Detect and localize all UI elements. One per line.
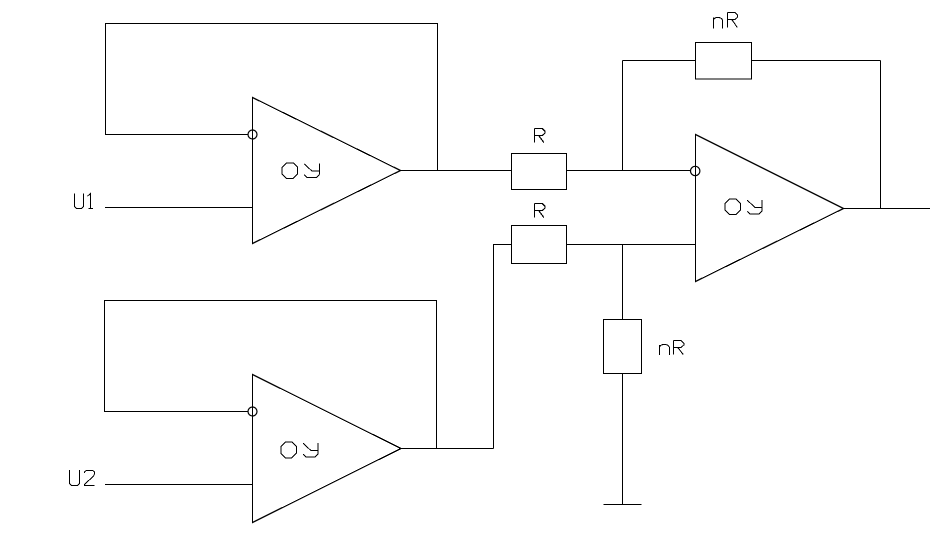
resistor R lower body bbox=[512, 226, 567, 264]
op-amp U1 triangle bbox=[253, 98, 401, 244]
resistor R upper body bbox=[512, 154, 567, 190]
op-amp U1 inverting input circle bbox=[248, 130, 257, 139]
wire: nR feedback down to op-amp U3 output bbox=[880, 61, 882, 209]
wire: feedback tap vertical (junction to nR) bbox=[622, 61, 624, 171]
op-amp U2 inverting input circle bbox=[248, 407, 257, 416]
wire: op-amp U1 output to resistor R upper bbox=[401, 170, 512, 172]
op-amp U3 triangle bbox=[696, 135, 844, 282]
wire: nR shunt to ground bbox=[622, 374, 624, 505]
label ОУ (inside op-amp U3) bbox=[725, 199, 762, 215]
wire: junction down to nR shunt bbox=[622, 245, 624, 320]
label U2 bbox=[70, 470, 95, 486]
wire: op-amp U3 output bbox=[844, 208, 930, 210]
wire: R lower to op-amp U3 non-inverting input bbox=[567, 244, 696, 246]
wire: R upper to op-amp U3 inverting input bbox=[567, 170, 691, 172]
wire: nR feedback left lead bbox=[623, 60, 696, 62]
resistor nR (feedback) body bbox=[696, 43, 752, 80]
label R (upper resistor) bbox=[535, 129, 546, 143]
op-amp U3 inverting input circle bbox=[691, 166, 700, 175]
label R (lower resistor) bbox=[535, 204, 546, 218]
wire: op-amp U2 output bbox=[401, 448, 494, 450]
label nR (shunt resistor) bbox=[660, 341, 684, 355]
label ОУ (inside op-amp U2) bbox=[281, 442, 318, 458]
wire: nR feedback right lead bbox=[752, 60, 881, 62]
label ОУ (inside op-amp U1) bbox=[282, 163, 319, 179]
op-amp U2 triangle bbox=[253, 375, 402, 523]
resistor nR (shunt) body bbox=[604, 320, 642, 374]
wire: input U1 to op-amp non-inverting input bbox=[105, 207, 253, 209]
label U1 bbox=[75, 194, 94, 209]
wire: input U2 to op-amp non-inverting input bbox=[105, 484, 253, 486]
wire: op-amp U1 feedback loop (output to inverting input) bbox=[106, 24, 438, 171]
label nR (feedback resistor) bbox=[714, 13, 738, 29]
wire: op-amp U2 output up to R lower bbox=[494, 245, 512, 449]
ground bbox=[604, 504, 642, 506]
wire: op-amp U2 feedback loop (output to inverting input) bbox=[105, 301, 437, 449]
